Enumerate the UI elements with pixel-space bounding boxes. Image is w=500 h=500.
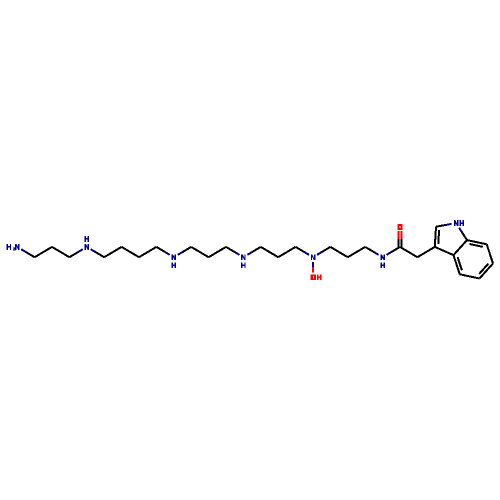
bond C10-C11 — [191, 247, 208, 257]
hydroxyl OH label — [311, 274, 322, 280]
bond C20-N6 — [365, 247, 374, 252]
bond C5-C6 — [104, 247, 121, 257]
bond C7-C8 — [139, 247, 156, 257]
bond C18-C19 — [330, 247, 347, 257]
bond C3-N2 — [69, 252, 78, 257]
amine N2 label NH (H above) — [85, 236, 90, 250]
bond N4-C14 — [247, 252, 252, 255]
benzene bond C6=C5 double — [479, 263, 493, 278]
indole bond C3a-C3 — [435, 247, 454, 255]
bond C6-C7 — [122, 247, 139, 257]
benzene bond C7-C6 — [487, 244, 493, 263]
bond C-methylene-C3-indole — [417, 247, 434, 257]
bond C2-C3 — [52, 247, 69, 257]
indole bond C2-N1 — [436, 225, 446, 227]
indole C3=C2 double bond — [435, 227, 436, 247]
bond C1-C2 — [35, 247, 52, 257]
bond N1-C1 — [21, 249, 26, 252]
indole NH label — [454, 220, 464, 226]
bond N3-C10 — [178, 252, 183, 255]
bond C14-C15 — [261, 247, 278, 257]
bond C11-C12 — [209, 247, 226, 257]
amine N1 label H2N — [7, 244, 20, 251]
bond C12-N4 — [226, 247, 235, 252]
amine N3 label NH (H below) — [172, 254, 177, 268]
benzene bond C7a=C7 double — [467, 240, 487, 244]
bond N5-O (N-hydroxy) — [312, 262, 314, 267]
bond C-carbonyl-C-methylene — [400, 247, 417, 257]
bond C16-N5 — [296, 247, 305, 252]
amine N6 label NH (H below) — [380, 254, 385, 268]
carbonyl O label — [397, 224, 402, 230]
bond N2-C5 — [91, 249, 96, 252]
benzene bond C4=C3a double — [454, 255, 460, 274]
indole bond N1-C7a — [459, 228, 461, 232]
bond C19-C20 — [348, 247, 365, 257]
indole bond C7a-C3a (ring fusion) — [454, 240, 468, 255]
amine N4 label NH (H below) — [241, 254, 246, 268]
benzene bond C5-C4 — [460, 274, 480, 278]
carbonyl double bond C=O — [397, 231, 399, 239]
bond C15-C16 — [278, 247, 295, 257]
bond C8-N3 — [156, 247, 165, 252]
bond N6-C-carbonyl — [387, 252, 392, 255]
hydroxylamine N5 label — [311, 254, 316, 260]
bond N5-C18 — [317, 252, 322, 255]
